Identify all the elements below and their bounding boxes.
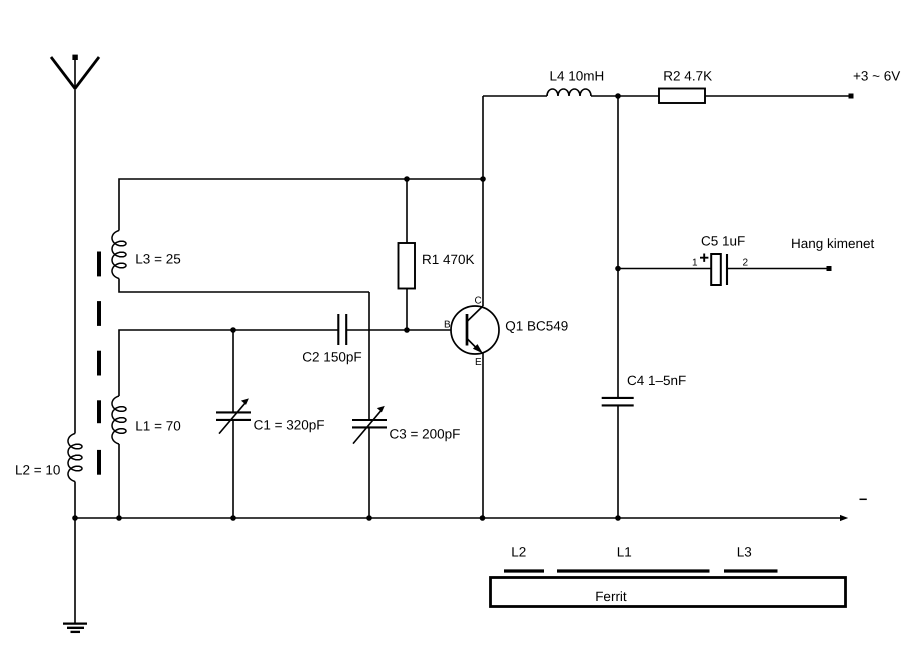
wire C5 lead right — [727, 268, 827, 270]
wire antenna lead — [74, 60, 76, 434]
inductor L4 — [547, 89, 591, 96]
junction node C1 top — [230, 327, 236, 333]
junction node rail-L1 — [116, 515, 122, 521]
junction node R1 top — [404, 176, 410, 182]
variable capacitor C3 — [352, 406, 387, 444]
inductor L2 — [68, 434, 82, 482]
ferrite rod — [491, 578, 846, 607]
svg-text:C5 1uF: C5 1uF — [701, 234, 745, 249]
junction node collector-feedback — [480, 176, 486, 182]
supply terminal — [849, 94, 854, 99]
svg-text:1: 1 — [692, 257, 698, 268]
capacitor C4 — [602, 398, 634, 406]
capacitor C2 — [338, 314, 346, 345]
junction node base — [404, 327, 410, 333]
wire L3 top corner to collector line — [119, 179, 483, 231]
wire C1 branch lower — [232, 420, 234, 518]
wire ground stem — [74, 518, 76, 623]
rail arrowhead — [840, 515, 848, 521]
svg-text:C4 1–5nF: C4 1–5nF — [627, 373, 686, 388]
inductor L3 — [112, 231, 126, 279]
svg-text:L3 = 25: L3 = 25 — [135, 252, 180, 267]
svg-text:2: 2 — [743, 257, 749, 268]
junction node L4-R2 — [615, 93, 621, 99]
svg-text:L1 = 70: L1 = 70 — [135, 418, 180, 433]
output terminal — [827, 266, 832, 271]
svg-text:L2: L2 — [511, 545, 526, 560]
junction node rail-C1 — [230, 515, 236, 521]
variable capacitor C1 — [216, 398, 251, 433]
wire top rail mid — [591, 95, 659, 97]
wire L2 bottom to rail — [74, 482, 76, 519]
resistor R1 — [399, 179, 416, 330]
svg-text:C3 = 200pF: C3 = 200pF — [390, 427, 461, 442]
svg-text:L2 = 10: L2 = 10 — [15, 462, 60, 477]
svg-text:Ferrit: Ferrit — [595, 589, 627, 604]
antenna — [51, 55, 99, 89]
wire L3 bottom to C3 branch — [119, 279, 369, 293]
wire emitter vertical — [482, 353, 484, 518]
resistor R2 — [659, 89, 705, 104]
svg-text:R1 470K: R1 470K — [422, 252, 475, 267]
svg-text:Q1 BC549: Q1 BC549 — [505, 318, 568, 333]
junction node rail-C3 — [366, 515, 372, 521]
ferrite core dashed line — [97, 252, 101, 475]
svg-text:L3: L3 — [737, 545, 752, 560]
winding bar L2 — [504, 569, 544, 572]
label minus — [860, 498, 867, 500]
wire top rail left — [483, 95, 547, 97]
winding bar L1 — [557, 569, 710, 572]
svg-text:L1: L1 — [617, 545, 632, 560]
svg-text:L4 10mH: L4 10mH — [550, 68, 605, 83]
wire C2 to base — [346, 329, 451, 331]
wire C3 branch lower — [368, 427, 370, 518]
winding bar L3 — [724, 569, 778, 572]
ground — [63, 624, 87, 632]
transistor Q1 — [451, 306, 499, 354]
wire C1 branch upper — [232, 330, 234, 412]
junction node rail-antenna — [72, 515, 78, 521]
inductor L1 — [112, 396, 126, 444]
wire C3 branch upper — [368, 292, 370, 420]
wire L1 top corner to C2 — [119, 330, 338, 396]
junction node C5 tap — [615, 266, 621, 272]
capacitor C5 — [700, 254, 727, 286]
svg-text:C: C — [475, 296, 482, 307]
wire C5 lead left — [618, 268, 711, 270]
svg-text:+3 ~ 6V: +3 ~ 6V — [853, 69, 900, 84]
wire C4 branch lower — [617, 405, 619, 518]
junction node rail-emitter — [480, 515, 486, 521]
wire L1 bottom to rail — [118, 444, 120, 518]
wire C4 branch upper — [617, 96, 619, 398]
junction node rail-C4 — [615, 515, 621, 521]
wire collector vertical — [482, 96, 484, 306]
wire bottom rail — [75, 517, 841, 519]
wire top rail right — [705, 95, 849, 97]
svg-text:C2 150pF: C2 150pF — [302, 350, 361, 365]
svg-text:R2 4.7K: R2 4.7K — [663, 68, 712, 83]
svg-text:E: E — [475, 357, 482, 368]
svg-text:Hang kimenet: Hang kimenet — [791, 236, 875, 251]
svg-text:B: B — [444, 320, 451, 331]
svg-text:C1 = 320pF: C1 = 320pF — [254, 418, 325, 433]
